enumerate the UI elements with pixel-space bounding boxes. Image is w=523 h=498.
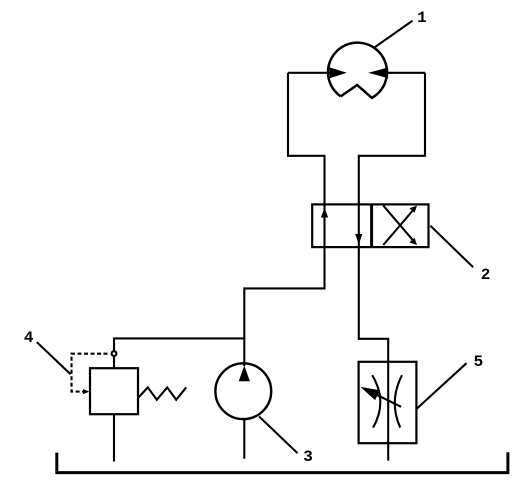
flow control valve 5: adjustment arrowhead: [360, 387, 380, 400]
flow control valve 5: adjustment arrow shaft: [370, 392, 401, 407]
valve 2: outer body rectangle: [312, 204, 428, 247]
motor 1: circle body with bottom notch: [328, 43, 387, 98]
flow control valve 5: left throttle arc: [372, 375, 380, 427]
valve 2: crossed arrow top-left to bottom-right: [383, 206, 414, 243]
relief valve 4: pilot node circle: [112, 351, 117, 356]
label 2 leader line: [430, 226, 473, 268]
motor 1: right port line: [387, 72, 426, 74]
valve 2: center divider line: [370, 204, 373, 247]
svg-text:4: 4: [24, 329, 34, 347]
motor 1: left inward arrowhead: [330, 67, 347, 78]
label 5 leader line: [416, 363, 466, 409]
tank: open-top reservoir: [57, 452, 508, 472]
wire: relief valve 4 drain line to tank: [113, 414, 115, 461]
valve 2: arrowhead at top-right of cross: [409, 206, 417, 213]
wire: relief valve branch from pump pressure line: [114, 338, 244, 351]
relief valve 4: dashed pilot line: [72, 354, 108, 392]
wire: motor left port down to valve 2 left port and on to pump 3 outlet: [244, 73, 324, 366]
valve 2: arrowhead at bottom-right of cross: [409, 238, 417, 245]
relief valve 4: spring zigzag: [138, 387, 186, 399]
label 4 leader line: [37, 342, 71, 374]
wire: motor right port down to valve 2 right port and on to flow valve 5: [359, 73, 425, 461]
wire: pump 3 suction line to tank: [243, 419, 245, 459]
svg-text:3: 3: [303, 448, 313, 466]
svg-text:2: 2: [481, 266, 491, 284]
pump 3: outlet arrowhead (filled triangle pointing up): [239, 366, 250, 382]
wire: pilot node to relief valve 4 inlet: [113, 356, 115, 368]
relief valve 4: body square: [90, 368, 138, 414]
relief valve 4: pilot arrowhead entering body: [83, 389, 90, 394]
flow control valve 5: body rectangle: [359, 362, 417, 443]
label 1 leader line: [375, 21, 413, 48]
label 3 leader line: [259, 416, 298, 453]
valve 2: crossed arrow bottom-left to top-right: [383, 209, 414, 246]
svg-text:5: 5: [474, 353, 484, 371]
flow control valve 5: right throttle arc: [395, 375, 402, 427]
svg-text:1: 1: [417, 9, 427, 27]
motor 1: left port line: [288, 72, 331, 74]
pump 3: circle body: [215, 363, 271, 419]
valve 2: up arrowhead on left wire: [321, 207, 328, 217]
valve 2: down arrowhead on right wire: [355, 234, 362, 244]
motor 1: right inward arrowhead: [368, 67, 388, 78]
